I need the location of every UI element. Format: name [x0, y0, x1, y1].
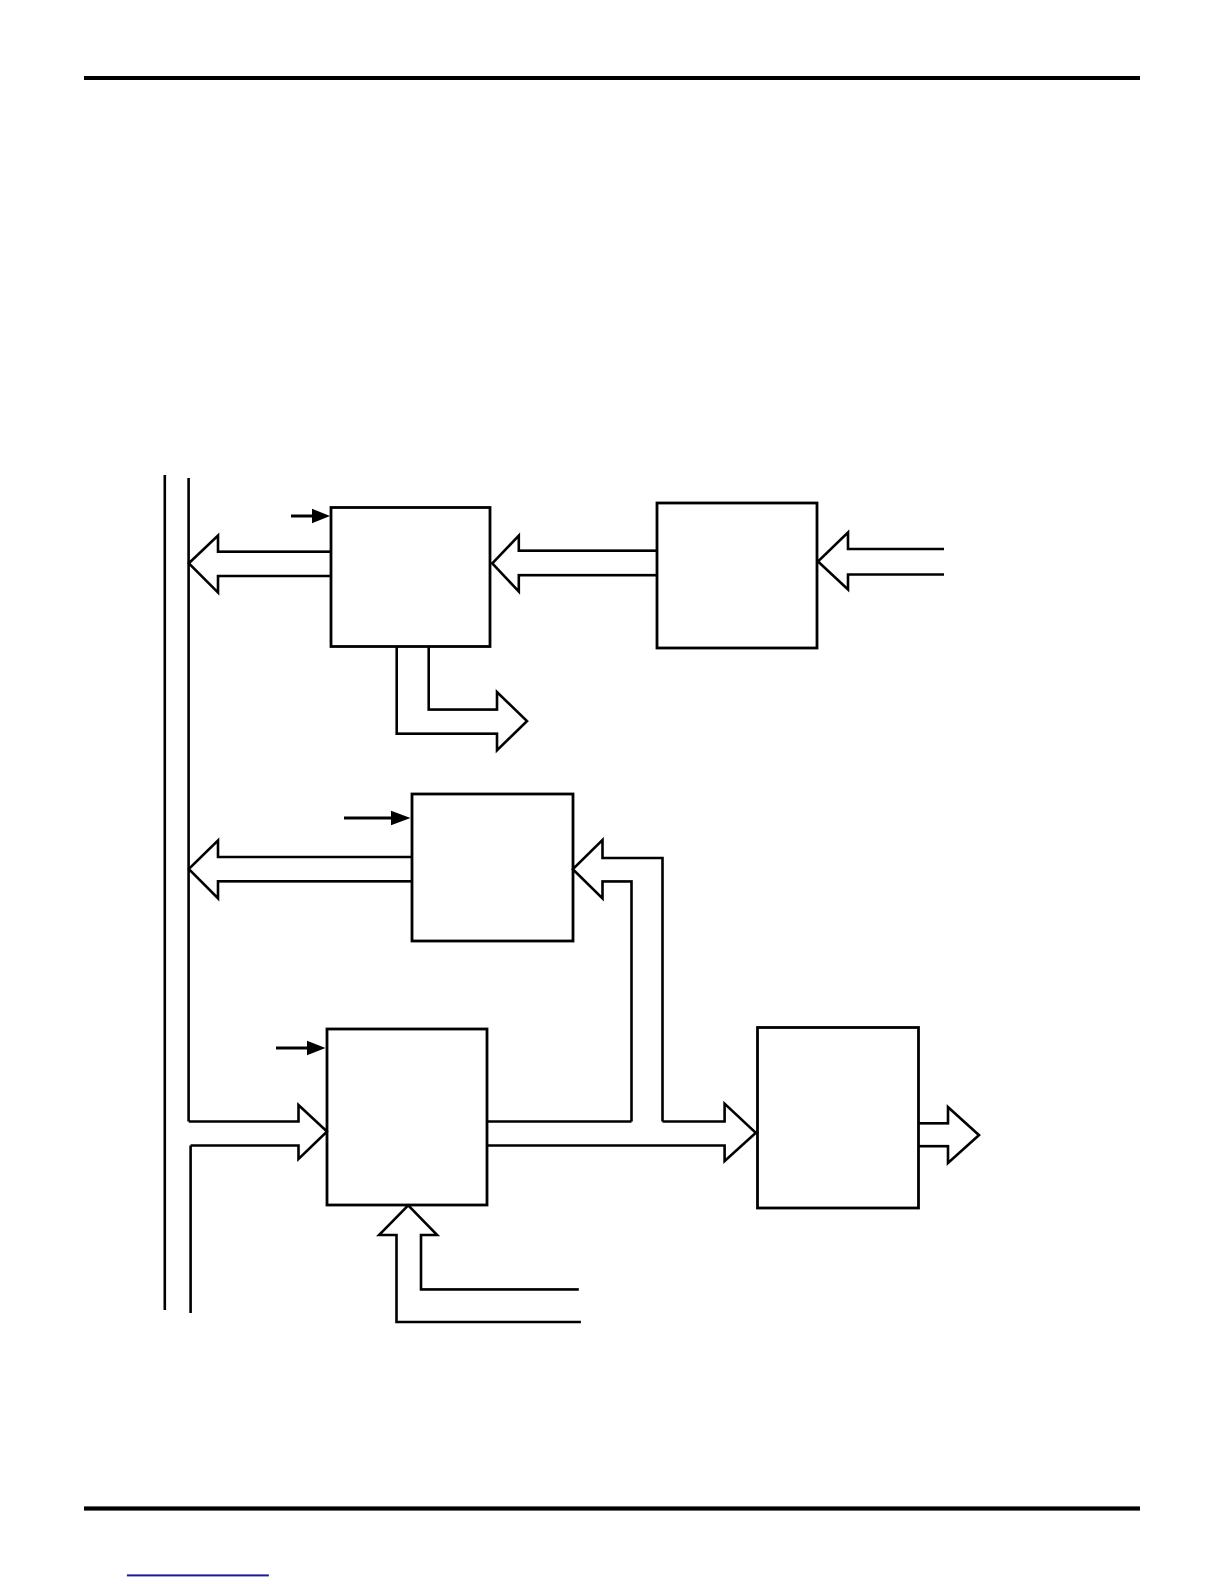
block arrow B4 to B5 (right) — [487, 1104, 756, 1161]
L-shaped block arrow from B1 bottom to right — [397, 647, 527, 750]
box B4 (bottom left) — [327, 1029, 487, 1205]
bus right line lower segment — [189, 1146, 192, 1314]
block arrow into B3 from channel (right) — [573, 840, 663, 1122]
up block arrow into B4 bottom — [379, 1205, 581, 1322]
thin clock arrow into B1 — [291, 509, 330, 523]
block arrow B2 to B1 (left) — [492, 536, 657, 592]
thin clock arrow into B4 — [276, 1041, 326, 1055]
box B1 (top left) — [331, 508, 490, 647]
footer hyperlink underline — [127, 1574, 269, 1576]
box B2 (top right) — [657, 503, 817, 648]
block arrow B3 to bus (left) — [189, 841, 412, 899]
bus right line upper segment — [187, 478, 190, 1122]
block arrow into B2 from right — [818, 533, 944, 590]
block arrow bus to B4 (right) — [189, 1105, 327, 1159]
block arrow B1 to bus (left) — [189, 536, 331, 593]
box B3 (middle) — [412, 794, 573, 941]
bus left line — [164, 475, 167, 1310]
block arrow B5 output (right) — [919, 1107, 980, 1163]
footer rule — [84, 1506, 1140, 1510]
header rule — [84, 76, 1140, 80]
thin clock arrow into B3 — [344, 811, 411, 825]
block arrow B4 to B5 top shaft left segment — [487, 1120, 632, 1123]
box B5 (bottom right) — [758, 1028, 919, 1209]
